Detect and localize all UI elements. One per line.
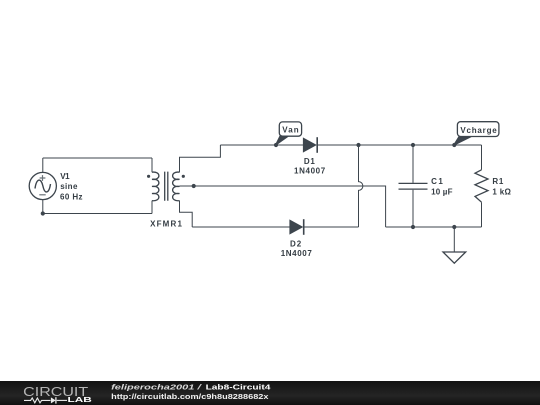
svg-text:sine: sine xyxy=(60,182,78,191)
wire primary top lead xyxy=(151,158,153,172)
phase dot primary xyxy=(147,175,150,178)
svg-text:XFMR1: XFMR1 xyxy=(150,219,182,228)
svg-text:1 kΩ: 1 kΩ xyxy=(492,188,511,197)
svg-text:/: / xyxy=(197,382,204,391)
svg-text:60 Hz: 60 Hz xyxy=(60,193,83,202)
wire bottom primary xyxy=(43,213,152,215)
phase dot secondary xyxy=(182,175,185,178)
wire primary bottom lead xyxy=(151,201,153,214)
node C1 bottom junction dot xyxy=(411,225,415,229)
node D1 cathode junction dot xyxy=(356,143,360,147)
flag Van callout xyxy=(276,122,302,145)
diode D1 xyxy=(304,137,318,153)
flag Vcharge callout xyxy=(454,122,499,145)
wire D1 cathode to top rail xyxy=(317,144,481,146)
transformer core xyxy=(165,172,168,201)
capacitor C1 xyxy=(399,145,428,227)
node Van junction dot xyxy=(274,143,278,147)
node Vcharge junction dot xyxy=(452,143,456,147)
wire cathode join with hop xyxy=(359,145,363,227)
resistor R1 xyxy=(475,145,488,227)
svg-text:LAB: LAB xyxy=(68,395,92,404)
wire center tap xyxy=(180,186,386,227)
wire D2 anode xyxy=(192,226,290,228)
wire D2 cathode xyxy=(304,226,359,228)
node C1 top junction dot xyxy=(411,143,415,147)
diode D2 xyxy=(290,219,304,235)
svg-text:Van: Van xyxy=(282,126,298,135)
svg-text:R1: R1 xyxy=(492,177,503,186)
voltage source V1 xyxy=(29,172,56,199)
ground xyxy=(443,227,466,263)
svg-text:1N4007: 1N4007 xyxy=(281,249,313,258)
wire secondary top lead xyxy=(180,145,221,172)
footer bar xyxy=(0,381,540,405)
wire bottom rail xyxy=(386,226,482,228)
svg-text:D1: D1 xyxy=(304,157,315,166)
node center tap junction dot xyxy=(192,184,196,188)
svg-text:C1: C1 xyxy=(431,177,443,186)
wire top rail to D1 xyxy=(220,144,303,146)
wire V1 bottom lead xyxy=(42,200,44,214)
svg-text:http://circuitlab.com/c9h8u828: http://circuitlab.com/c9h8u8288682x xyxy=(111,392,269,401)
svg-text:feliperocha2001: feliperocha2001 xyxy=(111,382,194,391)
svg-text:Lab8-Circuit4: Lab8-Circuit4 xyxy=(206,382,272,391)
logo schematic glyph xyxy=(24,397,67,403)
transformer XFMR1 primary winding xyxy=(152,172,159,201)
node ground junction dot xyxy=(452,225,456,229)
svg-text:1N4007: 1N4007 xyxy=(294,167,326,176)
wire V1 top lead xyxy=(42,158,44,172)
svg-text:D2: D2 xyxy=(290,239,302,248)
wire top primary xyxy=(43,157,152,159)
wire secondary bottom lead xyxy=(180,201,193,227)
node V1 bottom junction dot xyxy=(41,211,45,215)
svg-text:V1: V1 xyxy=(60,172,70,181)
svg-text:10 µF: 10 µF xyxy=(431,188,453,197)
svg-text:Vcharge: Vcharge xyxy=(460,126,497,135)
transformer XFMR1 secondary winding xyxy=(173,172,180,201)
